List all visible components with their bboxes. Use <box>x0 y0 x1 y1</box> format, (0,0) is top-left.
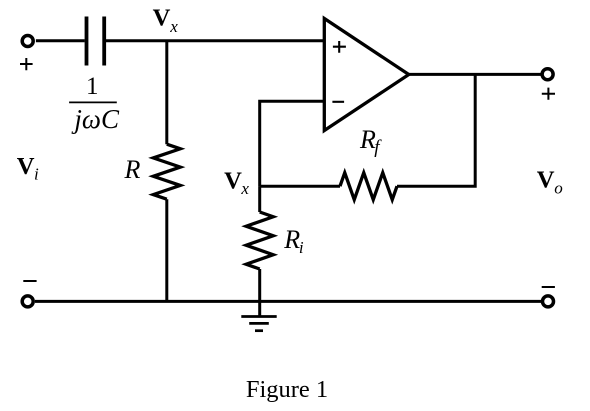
svg-text:R: R <box>124 155 141 184</box>
svg-text:1: 1 <box>86 73 99 100</box>
svg-text:i: i <box>34 165 39 184</box>
svg-text:o: o <box>554 178 563 197</box>
svg-text:V: V <box>224 167 242 194</box>
svg-text:x: x <box>240 179 249 198</box>
svg-text:V: V <box>153 4 171 31</box>
svg-text:Figure 1: Figure 1 <box>246 376 328 403</box>
svg-text:i: i <box>299 238 304 257</box>
svg-text:R: R <box>283 225 300 254</box>
svg-text:V: V <box>537 166 555 193</box>
svg-text:jωC: jωC <box>71 104 120 134</box>
svg-text:x: x <box>169 17 178 36</box>
svg-text:V: V <box>17 153 35 180</box>
